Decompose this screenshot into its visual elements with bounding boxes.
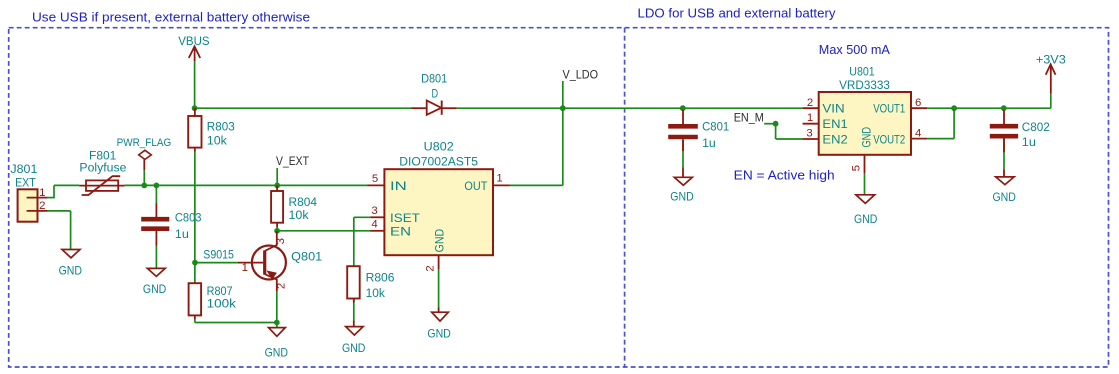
svg-text:10k: 10k — [289, 208, 310, 222]
svg-text:4: 4 — [915, 127, 921, 139]
svg-text:100k: 100k — [207, 297, 237, 311]
svg-text:DIO7002AST5: DIO7002AST5 — [399, 155, 478, 169]
svg-text:EXT: EXT — [15, 176, 36, 190]
svg-text:GND: GND — [860, 127, 874, 148]
svg-text:+3V3: +3V3 — [1036, 53, 1066, 67]
svg-text:EN: EN — [390, 224, 411, 238]
svg-text:5: 5 — [372, 173, 378, 185]
svg-text:GND: GND — [432, 229, 446, 253]
svg-text:GND: GND — [143, 282, 166, 296]
svg-text:D: D — [432, 86, 439, 100]
svg-text:D801: D801 — [421, 72, 447, 86]
svg-text:3: 3 — [806, 127, 812, 139]
svg-text:2: 2 — [275, 283, 287, 289]
svg-text:2: 2 — [425, 265, 437, 271]
svg-text:6: 6 — [915, 97, 921, 109]
svg-text:EN1: EN1 — [822, 117, 847, 131]
svg-text:C803: C803 — [175, 211, 202, 225]
svg-text:1: 1 — [39, 187, 45, 199]
svg-text:3: 3 — [371, 205, 377, 217]
svg-text:1u: 1u — [1022, 135, 1036, 149]
svg-text:1: 1 — [242, 262, 248, 274]
svg-text:ISET: ISET — [390, 211, 420, 225]
svg-text:U801: U801 — [849, 65, 874, 79]
svg-text:10k: 10k — [366, 286, 386, 300]
svg-text:EN_M: EN_M — [734, 110, 764, 124]
svg-text:1: 1 — [496, 173, 502, 185]
svg-text:V_EXT: V_EXT — [276, 154, 309, 168]
svg-text:IN: IN — [390, 179, 407, 193]
svg-text:Q801: Q801 — [291, 250, 322, 264]
svg-text:3: 3 — [275, 238, 287, 244]
svg-text:VIN: VIN — [822, 101, 844, 115]
svg-text:GND: GND — [427, 327, 450, 341]
svg-text:VOUT1: VOUT1 — [873, 101, 905, 115]
svg-text:C801: C801 — [702, 119, 729, 133]
svg-text:1u: 1u — [702, 136, 716, 150]
svg-text:U802: U802 — [424, 140, 454, 154]
svg-text:OUT: OUT — [464, 179, 487, 193]
svg-text:4: 4 — [371, 219, 377, 231]
svg-text:S9015: S9015 — [203, 248, 234, 262]
svg-text:R803: R803 — [207, 120, 235, 134]
svg-text:R806: R806 — [366, 270, 395, 284]
svg-text:1u: 1u — [175, 227, 189, 241]
svg-text:R804: R804 — [289, 195, 318, 209]
svg-text:V_LDO: V_LDO — [563, 68, 599, 82]
svg-text:C802: C802 — [1022, 120, 1050, 134]
svg-text:Polyfuse: Polyfuse — [79, 161, 126, 175]
svg-text:VBUS: VBUS — [178, 34, 209, 48]
svg-text:GND: GND — [854, 212, 877, 226]
svg-text:VRD3333: VRD3333 — [839, 78, 890, 92]
svg-text:2: 2 — [807, 97, 813, 109]
svg-text:GND: GND — [59, 264, 82, 278]
svg-text:EN2: EN2 — [822, 132, 847, 146]
svg-text:PWR_FLAG: PWR_FLAG — [117, 137, 172, 149]
svg-text:5: 5 — [851, 165, 863, 171]
svg-text:EN = Active high: EN = Active high — [734, 169, 835, 183]
svg-text:VOUT2: VOUT2 — [873, 132, 905, 146]
svg-text:10k: 10k — [207, 133, 228, 147]
svg-text:1: 1 — [807, 112, 813, 124]
svg-text:J801: J801 — [10, 162, 37, 176]
svg-text:GND: GND — [670, 189, 693, 203]
svg-text:Max 500 mA: Max 500 mA — [819, 43, 891, 57]
svg-text:Use USB if present, external b: Use USB if present, external battery oth… — [32, 10, 310, 24]
svg-text:GND: GND — [993, 190, 1016, 204]
svg-text:GND: GND — [342, 341, 365, 355]
svg-text:2: 2 — [39, 200, 45, 212]
svg-text:LDO for USB and external batte: LDO for USB and external battery — [638, 6, 837, 20]
svg-text:GND: GND — [265, 345, 288, 359]
